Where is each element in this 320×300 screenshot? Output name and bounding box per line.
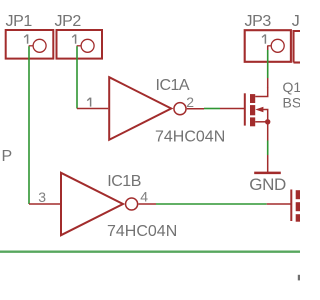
IC1B triangle [61,173,123,235]
Q1 bulk arrow [255,107,263,112]
wire segment red at JP3 stub [267,46,269,50]
JP1 pin number 1 [24,34,27,43]
JP3 body [245,30,291,62]
Q1 channel segment drain [250,94,255,103]
svg-text:GND: GND [249,175,286,194]
JP3 pad circle [271,39,284,52]
J4 body left edge and top edge [294,31,303,63]
IC1A output pin 2 stub [187,108,204,110]
GND bar [254,172,281,175]
junction source-bulk [265,119,270,124]
JP2 pad circle [81,39,94,52]
Q1 drain lead [255,87,268,97]
Q1 bulk lead [263,110,268,122]
wire JP3 pin 1 to Q1 drain [267,46,269,88]
svg-text:2: 2 [186,94,194,110]
SP1 pin stub [267,203,291,205]
J4 body bottom edge [294,61,303,63]
svg-text:4: 4 [140,189,148,205]
connector JP2 [55,13,103,59]
Q1 channel segment body [250,105,255,115]
wire JP2 pin 1 to IC1A input [76,46,78,108]
inverter IC1B (74HC04N gate) [29,173,177,240]
wire segment net green [267,50,269,78]
JP1 pin 1 stub [29,45,33,47]
wire Q1 source to GND [267,122,269,172]
wire IC1A output to Q1 gate [204,108,220,110]
SP1 body segment middle [296,202,302,211]
SP1 body segment bottom [296,214,302,222]
svg-text:BS170: BS170 [283,95,301,111]
svg-text:74HC04N: 74HC04N [155,129,225,146]
wire segment red at GND pin [267,155,269,172]
SP1 plate [290,190,292,222]
IC1B inversion bubble [126,198,138,210]
piezo SP1 (cut off at right edge) [267,190,302,222]
IC1B output pin 4 stub [138,203,156,205]
svg-text:3: 3 [38,189,46,205]
svg-text:JP3: JP3 [245,13,272,30]
svg-text:IC1A: IC1A [156,77,190,94]
Q1 source lead [255,121,268,123]
JP3 pin 1 stub [267,45,271,47]
JP2 pin number 1 [72,34,75,43]
wire IC1B output to piezo SP1 [156,203,267,205]
svg-text:IC1B: IC1B [107,173,141,190]
svg-text:JP1: JP1 [6,13,33,30]
wire bottom net [0,250,300,252]
IC1B input pin 3 stub [29,203,60,205]
svg-text:74HC04N: 74HC04N [107,223,177,240]
svg-text:Q1: Q1 [283,79,301,95]
inverter IC1A (74HC04N gate) [77,77,225,146]
IC1A input pin 1 stub [77,108,108,110]
JP2 body [57,30,103,59]
wire segment red at source pin [267,122,269,141]
JP2 pin 1 stub [77,45,81,47]
IC1A inversion bubble [174,103,186,115]
JP1 pad circle [33,39,46,52]
net label fragment (cut off at bottom right) [298,275,300,281]
svg-text:JP2: JP2 [55,13,82,30]
svg-text:P: P [2,148,13,165]
wire segment red at drain pin [267,78,269,88]
SP1 body segment top [296,190,302,199]
connector J4 (cut off at right edge) [292,13,302,63]
wire JP1 pin 1 to IC1B input [28,46,30,204]
JP1 body [6,30,54,59]
svg-text:J: J [292,13,300,30]
IC1A pin number 1 [87,98,90,107]
Q1 channel segment source [250,117,255,126]
IC1A triangle [109,77,171,140]
wire segment net green [267,141,269,156]
Q1 gate lead [220,108,245,110]
connector JP3 [245,13,291,62]
JP3 pin number 1 [262,34,265,43]
connector JP1 [6,13,54,59]
transistor Q1 (BS170 N-MOSFET) [220,79,320,126]
Q1 gate bar [244,93,246,125]
ground GND [249,173,286,194]
